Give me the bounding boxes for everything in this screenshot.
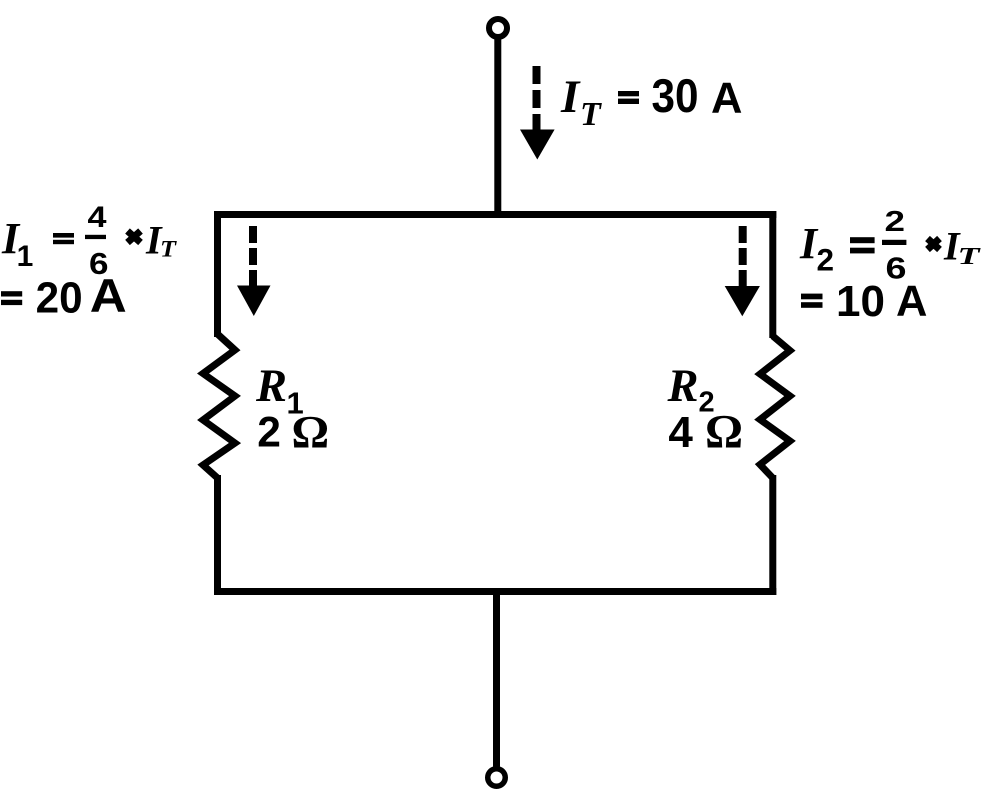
wire: left branch lower [214, 475, 221, 595]
svg-text:20: 20 [36, 274, 83, 323]
svg-text:4: 4 [668, 408, 693, 457]
wire: right branch upper [769, 211, 776, 338]
svg-text:A: A [90, 269, 127, 322]
svg-text:I: I [560, 71, 581, 123]
label R1 value [255, 361, 329, 459]
resistor R1 [203, 334, 235, 478]
current arrow I2 (dashed) [725, 226, 760, 316]
wire: left branch upper [214, 211, 221, 337]
label = 10 A [801, 277, 927, 326]
wire: bottom stem [493, 588, 500, 767]
top terminal [489, 19, 507, 37]
svg-text:Ω: Ω [705, 407, 743, 459]
current arrow IT (dashed) [520, 66, 555, 160]
wire: top horizontal [214, 211, 776, 218]
svg-text:10: 10 [836, 277, 885, 326]
svg-text:1: 1 [17, 240, 34, 273]
current arrow I1 (dashed) [237, 226, 271, 316]
svg-text:30: 30 [652, 69, 699, 122]
bottom terminal [488, 769, 506, 787]
svg-text:A: A [896, 278, 927, 326]
svg-text:Ω: Ω [292, 407, 330, 459]
svg-text:4: 4 [88, 201, 107, 234]
label = 20 A [1, 269, 127, 323]
wire: right branch lower [769, 475, 776, 595]
svg-text:2: 2 [817, 242, 835, 278]
svg-text:T: T [958, 244, 981, 270]
label R2 value [667, 361, 744, 459]
resistor R2 [760, 336, 790, 478]
svg-text:T: T [160, 237, 177, 262]
label I2 = 2/6 x IT [799, 206, 981, 286]
label I1 = 4/6 x IT [1, 201, 177, 281]
svg-text:2: 2 [257, 410, 281, 457]
wire: top stem [494, 39, 501, 218]
svg-text:R: R [255, 361, 287, 412]
svg-text:R: R [667, 361, 699, 412]
wire: bottom horizontal [214, 588, 776, 595]
svg-text:2: 2 [885, 206, 906, 238]
svg-text:T: T [580, 96, 602, 133]
label IT = 30 A [560, 69, 742, 133]
svg-text:A: A [711, 75, 742, 123]
